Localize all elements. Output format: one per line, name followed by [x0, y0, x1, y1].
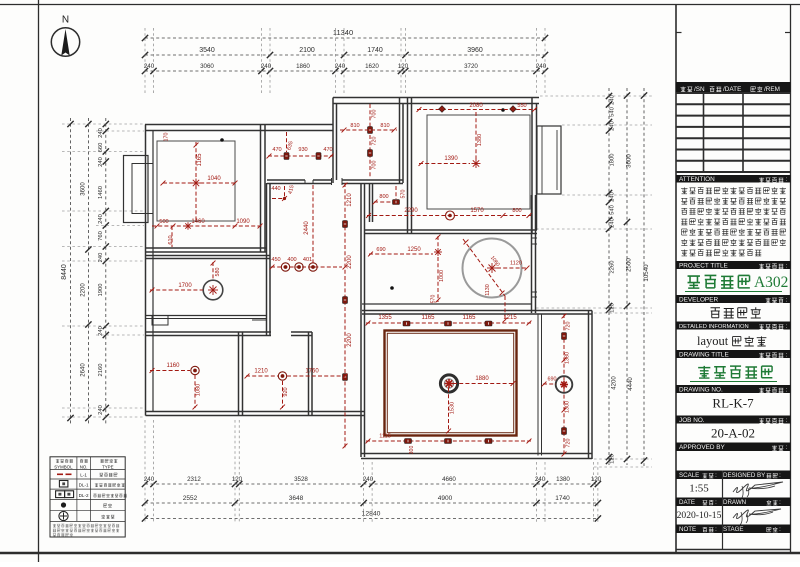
svg-text:1165: 1165	[463, 315, 477, 321]
svg-text:930: 930	[298, 147, 307, 153]
svg-text:1880: 1880	[475, 376, 489, 382]
svg-text:400: 400	[287, 257, 296, 263]
svg-text:920: 920	[283, 387, 289, 396]
svg-text:570: 570	[401, 190, 407, 199]
svg-text:DETAILED INFORMATION: DETAILED INFORMATION	[679, 324, 749, 330]
svg-text:1080: 1080	[196, 384, 202, 396]
svg-text:1355: 1355	[378, 315, 392, 321]
svg-text:3060: 3060	[200, 63, 214, 70]
svg-text:610: 610	[168, 235, 174, 244]
svg-text:690: 690	[548, 377, 557, 383]
svg-text:DRAWN: DRAWN	[723, 499, 746, 506]
svg-text:4900: 4900	[438, 495, 453, 502]
svg-text:1250: 1250	[407, 247, 421, 253]
svg-text:TYPE: TYPE	[102, 464, 114, 469]
svg-text:2200: 2200	[347, 255, 353, 269]
svg-text:2312: 2312	[187, 476, 201, 483]
svg-text:JOB NO.: JOB NO.	[679, 417, 705, 424]
svg-text:800: 800	[512, 208, 521, 214]
svg-text:10540: 10540	[643, 264, 650, 282]
svg-text:2260: 2260	[610, 261, 616, 274]
svg-text:700: 700	[372, 161, 378, 170]
svg-text:550: 550	[517, 103, 526, 109]
svg-text:1740: 1740	[367, 47, 383, 54]
svg-text:470: 470	[323, 147, 332, 153]
svg-text:NOTE: NOTE	[679, 526, 696, 533]
svg-text:720: 720	[566, 322, 572, 331]
svg-text:2100: 2100	[299, 47, 315, 54]
svg-text:720: 720	[372, 137, 378, 146]
svg-text:170: 170	[164, 133, 170, 142]
svg-text:800: 800	[379, 194, 388, 200]
svg-text:1760: 1760	[305, 369, 319, 375]
svg-text:470: 470	[272, 147, 281, 153]
svg-text:700: 700	[372, 110, 378, 119]
svg-text:4200: 4200	[612, 376, 618, 390]
svg-text:2290: 2290	[404, 208, 418, 214]
svg-text:1165: 1165	[197, 153, 203, 167]
svg-text:3960: 3960	[467, 47, 483, 54]
svg-text:1460: 1460	[98, 186, 104, 199]
svg-text:540: 540	[610, 107, 616, 117]
svg-text:/SN: /SN	[694, 86, 705, 93]
svg-text:570: 570	[431, 295, 437, 304]
svg-text:3528: 3528	[294, 476, 308, 483]
svg-text:401: 401	[303, 257, 312, 263]
svg-text:1160: 1160	[167, 363, 181, 369]
svg-text:DATE: DATE	[679, 499, 695, 506]
svg-text:2160: 2160	[98, 364, 104, 377]
svg-text:1120: 1120	[510, 261, 522, 267]
svg-text:3720: 3720	[464, 63, 478, 70]
svg-text:4440: 4440	[628, 377, 634, 391]
svg-text:STAGE: STAGE	[723, 526, 744, 533]
svg-text:DRAWING NO.: DRAWING NO.	[679, 386, 723, 393]
svg-text:240: 240	[610, 192, 616, 202]
svg-text:2640: 2640	[81, 363, 87, 377]
svg-text:1460: 1460	[191, 219, 205, 225]
svg-text:/REM: /REM	[764, 86, 780, 93]
svg-text:240: 240	[98, 214, 104, 224]
svg-text:1700: 1700	[178, 283, 192, 289]
svg-text:/DATE: /DATE	[723, 86, 741, 93]
svg-text:L-1: L-1	[80, 473, 87, 478]
svg-text:layout: layout	[697, 334, 729, 348]
svg-text:DL-2: DL-2	[79, 493, 89, 498]
svg-text:1040: 1040	[207, 176, 221, 182]
svg-text:120: 120	[232, 476, 243, 483]
svg-text:2200: 2200	[347, 333, 353, 347]
svg-text:2552: 2552	[183, 495, 198, 502]
svg-text:DL-1: DL-1	[79, 483, 89, 488]
svg-text:240: 240	[144, 63, 155, 70]
svg-text:N: N	[62, 15, 69, 26]
svg-text:1900: 1900	[98, 284, 104, 297]
svg-text:1380: 1380	[565, 352, 571, 364]
svg-text:1090: 1090	[236, 219, 250, 225]
svg-text:720: 720	[566, 439, 572, 448]
svg-text:810: 810	[380, 123, 389, 129]
svg-text:1210: 1210	[347, 193, 353, 207]
svg-text:240: 240	[98, 405, 104, 415]
svg-text:240: 240	[98, 157, 104, 167]
svg-text:4660: 4660	[442, 476, 456, 483]
svg-text:3600: 3600	[81, 182, 87, 196]
svg-text:1000: 1000	[439, 270, 445, 282]
svg-text:1300: 1300	[565, 401, 571, 413]
svg-text:440: 440	[271, 186, 280, 192]
svg-text:SCALE: SCALE	[679, 472, 699, 479]
svg-text:1210: 1210	[254, 369, 268, 375]
svg-text:1:55: 1:55	[689, 483, 709, 495]
svg-text:580: 580	[215, 268, 221, 277]
svg-text:APPROVED BY: APPROVED BY	[679, 444, 726, 451]
svg-text:3540: 3540	[199, 47, 215, 54]
svg-text:1740: 1740	[555, 495, 570, 502]
svg-text:120: 120	[591, 476, 602, 483]
svg-text:1165: 1165	[422, 315, 436, 321]
svg-text:1380: 1380	[477, 134, 483, 146]
svg-text:20-A-02: 20-A-02	[711, 426, 755, 441]
svg-text:760: 760	[98, 231, 104, 241]
svg-text:240: 240	[98, 326, 104, 336]
svg-text:2440: 2440	[304, 221, 310, 235]
svg-text:PROJECT TITLE: PROJECT TITLE	[679, 262, 728, 269]
svg-text:DESIGNED BY: DESIGNED BY	[723, 472, 765, 479]
svg-text:A302: A302	[754, 274, 788, 291]
svg-text:240: 240	[98, 128, 104, 138]
svg-text:ATTENTION: ATTENTION	[679, 176, 715, 183]
svg-text:SYMBOL: SYMBOL	[54, 464, 73, 469]
svg-text:240: 240	[610, 121, 616, 131]
svg-text:NO.: NO.	[80, 464, 88, 469]
svg-text:1130: 1130	[485, 284, 491, 296]
svg-text:2020-10-15: 2020-10-15	[677, 510, 722, 521]
svg-text:8440: 8440	[61, 264, 68, 280]
svg-text:450: 450	[271, 257, 280, 263]
svg-text:1530: 1530	[450, 402, 456, 414]
svg-text:240: 240	[144, 476, 155, 483]
svg-text:3600: 3600	[626, 154, 633, 168]
svg-text:1390: 1390	[444, 156, 458, 162]
svg-text:690: 690	[376, 247, 385, 253]
svg-text:1860: 1860	[296, 63, 310, 70]
svg-text:1620: 1620	[365, 63, 379, 70]
svg-text:2500: 2500	[626, 258, 633, 272]
svg-text:1215: 1215	[503, 315, 517, 321]
svg-text:DRAWING TITLE: DRAWING TITLE	[679, 351, 729, 358]
svg-text:1800: 1800	[610, 154, 616, 167]
svg-text:3648: 3648	[289, 495, 304, 502]
svg-text:300: 300	[409, 446, 415, 455]
svg-text:240: 240	[610, 218, 616, 228]
svg-text:810: 810	[350, 123, 359, 129]
svg-text:12840: 12840	[362, 511, 381, 518]
svg-text:500: 500	[159, 219, 168, 225]
svg-text:2200: 2200	[81, 283, 87, 297]
svg-text:240: 240	[610, 95, 616, 105]
svg-text:1570: 1570	[470, 208, 484, 214]
svg-text:RL-K-7: RL-K-7	[712, 396, 754, 411]
svg-text:660: 660	[98, 143, 104, 153]
svg-text:1115: 1115	[379, 434, 391, 440]
svg-text:11340: 11340	[333, 28, 353, 37]
svg-text:120: 120	[398, 63, 409, 70]
svg-text:DEVELOPER: DEVELOPER	[679, 296, 718, 303]
svg-text:1380: 1380	[556, 476, 570, 483]
svg-text:540: 540	[610, 205, 616, 215]
svg-text:2080: 2080	[469, 103, 483, 109]
